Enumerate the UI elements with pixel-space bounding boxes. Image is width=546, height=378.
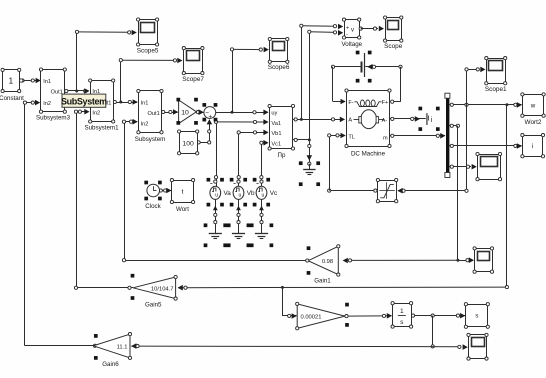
svg-text:Out1: Out1 <box>148 111 160 117</box>
svg-text:i: i <box>532 143 533 150</box>
wire: integrator output to s display <box>411 315 465 317</box>
wire: DC Machine m output to Demux <box>390 135 446 137</box>
wire: down to ground under Pr <box>309 140 311 164</box>
svg-text:+: + <box>346 25 349 31</box>
gain block 10 (selected) <box>179 100 197 124</box>
wire: Constant 100 up into Sum plus input <box>197 142 209 144</box>
svg-text:In1: In1 <box>141 100 149 106</box>
saturation block <box>378 181 397 202</box>
svg-text:A: A <box>348 118 352 124</box>
gain block Gain1 0.98 (points left) <box>308 246 338 274</box>
ground under Va (selected) <box>209 233 222 235</box>
svg-text:In2: In2 <box>141 121 149 127</box>
svg-text:Пр: Пр <box>278 152 286 159</box>
svg-text:In2: In2 <box>43 101 51 107</box>
wire: Gain5 feedback to Subsystem1 In2 <box>76 112 78 288</box>
wire: battery right down to F+ <box>400 67 402 102</box>
svg-text:w: w <box>530 102 536 109</box>
DC Machine block <box>347 91 390 147</box>
svg-text:100: 100 <box>182 140 194 147</box>
subsystem block Subsystem <box>139 91 162 133</box>
display block i-display <box>523 136 543 157</box>
svg-text:t: t <box>182 188 184 195</box>
svg-text:Scope7: Scope7 <box>182 76 204 83</box>
wire: demux out2 (current) down to Gain1 0.98 node <box>449 125 458 127</box>
voltage measurement block Voltage <box>345 20 360 38</box>
controlled voltage source Va (selected) <box>210 186 221 199</box>
svg-text:Clock: Clock <box>145 203 161 210</box>
svg-text:In2: In2 <box>92 110 100 116</box>
svg-text:Voltage: Voltage <box>341 41 362 48</box>
svg-text:Wort: Wort <box>176 206 189 213</box>
svg-text:10/104.7: 10/104.7 <box>151 286 174 292</box>
svg-text:11.1: 11.1 <box>117 344 128 350</box>
gain block Gain5 10/104.7 (points left) <box>133 277 176 299</box>
wire: Vb source up to Pr Vb1 input <box>238 132 240 186</box>
wire: Subsystem Out1 to Gain 10 <box>162 112 178 114</box>
wire: battery left down to F- <box>332 67 334 102</box>
svg-text:m: m <box>383 135 388 141</box>
sum block (selected) <box>204 107 216 119</box>
svg-text:Gain5: Gain5 <box>145 302 162 309</box>
svg-text:v: v <box>351 28 354 34</box>
display block Wort2 <box>523 95 544 116</box>
controlled voltage source Vc (selected) <box>256 186 267 199</box>
wire: demux out3 to i display <box>449 145 521 147</box>
clock block (selected) <box>147 184 160 197</box>
scope block Scope5 <box>139 20 158 45</box>
controlled voltage source Vb (selected) <box>233 186 244 199</box>
svg-text:1: 1 <box>9 76 14 86</box>
scope block Scope6 <box>270 39 288 62</box>
wire: branch up to Scope7 <box>120 60 122 102</box>
wire: Vc source up to Pr Vc1 input <box>261 143 263 187</box>
ground under Vb (selected) <box>232 233 245 235</box>
wire: DC Machine A- to current measurement <box>390 118 426 120</box>
scope block Scope <box>386 18 402 41</box>
constant block Constant value 1 <box>3 70 20 92</box>
svg-text:Gain6: Gain6 <box>102 361 119 368</box>
svg-text:SubSystem: SubSystem <box>61 97 107 107</box>
svg-text:TL: TL <box>348 134 355 140</box>
svg-text:Subsystem1: Subsystem1 <box>84 124 119 131</box>
svg-text:Out1: Out1 <box>51 90 63 96</box>
tooltip SubSystem (yellow hover box) <box>62 94 106 107</box>
svg-text:Subsystem: Subsystem <box>135 136 166 143</box>
display block Wort (t) <box>172 181 194 203</box>
display block s-display <box>466 305 488 327</box>
DC voltage source (battery) for field <box>364 53 366 77</box>
wire source Va down to ground <box>215 199 217 233</box>
scope block Scope2 <box>475 249 493 272</box>
armature circle with brushes <box>361 110 377 129</box>
gain block Gain6 11.1 (points left) <box>93 334 130 358</box>
wire: Clock to Wort <box>160 190 172 192</box>
svg-text:Scope6: Scope6 <box>268 64 290 71</box>
svg-text:Gain1: Gain1 <box>314 277 331 284</box>
constant block 100 <box>180 132 198 154</box>
ground symbol below Pr output <box>309 164 311 170</box>
svg-text:u: u <box>215 193 218 199</box>
svg-text:A-: A- <box>382 118 388 124</box>
wire: demux out4 to Scope4 <box>449 166 471 168</box>
wire: Pr out2 <box>293 139 309 141</box>
svg-text:u: u <box>262 193 265 199</box>
svg-text:u: u <box>239 193 242 199</box>
wire: Gain6 feedback up left column to Subsystem3 In2 <box>24 103 26 346</box>
wire source Vc down to ground <box>261 199 263 233</box>
svg-text:In1: In1 <box>43 79 51 85</box>
wire: bottom feedback to Gain6 and Scope3 <box>131 345 459 348</box>
wire: branch up to Scope5 <box>76 32 78 91</box>
svg-text:0.98: 0.98 <box>322 259 333 265</box>
svg-text:F+: F+ <box>382 100 389 106</box>
svg-text:Wort2: Wort2 <box>525 119 542 126</box>
svg-text:Va: Va <box>224 190 232 197</box>
field winding inductor <box>355 102 382 107</box>
scope block Scope1 <box>487 59 506 84</box>
Demux (black bar) <box>446 97 449 175</box>
wire: Voltage output to Scope <box>361 28 378 30</box>
wire: branch up to Scope1 <box>466 69 468 104</box>
wire: w node down right side to speed feedback <box>506 105 508 287</box>
wire: branch down to Saturation input <box>466 105 468 191</box>
wire: Va source up to Pr Va1 input <box>216 122 218 186</box>
svg-text:Vb: Vb <box>247 190 255 197</box>
wire: 0.00021 gain to integrator 1/s <box>345 315 392 317</box>
wire: Gain6 output to left column <box>25 345 94 347</box>
wire: saturation out left and up to TL <box>329 190 378 192</box>
svg-text:Scope5: Scope5 <box>137 48 159 55</box>
scope block Scope3 <box>469 335 487 359</box>
scope block Scope4 <box>478 155 501 180</box>
svg-text:+: + <box>208 114 212 121</box>
subsystem block Subsystem3 <box>41 70 65 112</box>
wire: Pr out2 node to Voltage - input <box>309 32 311 140</box>
selection handles of ground <box>299 161 303 165</box>
svg-text:Vc: Vc <box>270 190 278 197</box>
wire: node up to Voltage + input <box>301 26 303 120</box>
svg-text:Subsystem3: Subsystem3 <box>36 114 71 121</box>
svg-text:Constant: Constant <box>0 95 24 102</box>
wire: Subsystem1 Out1 to Subsystem In1 <box>113 102 137 104</box>
svg-text:uy: uy <box>271 111 277 117</box>
wire: branch down to bottom feedback wire <box>432 316 434 347</box>
svg-text:0.00021: 0.00021 <box>301 314 322 320</box>
wire: Subsystem3 Out1 to Subsystem1 In1 <box>65 90 89 92</box>
wire source Vb down to ground <box>238 199 240 233</box>
svg-text:s: s <box>475 314 478 320</box>
svg-text:Vc1: Vc1 <box>271 141 281 147</box>
wire: Gain10 output to Sum <box>196 112 203 114</box>
wire: battery field supply circuit <box>333 66 361 68</box>
subsystem block Pr (converter) <box>270 107 293 149</box>
svg-text:-: - <box>346 32 348 38</box>
svg-text:DC Machine: DC Machine <box>351 150 386 157</box>
wire: branch down into 0.00021 gain <box>281 286 284 289</box>
wire: Pr out1 to DC Machine A+ <box>293 119 345 121</box>
svg-text:10: 10 <box>181 110 189 117</box>
wire: Sum output to Pr uy input <box>216 112 267 114</box>
svg-text:Scope1: Scope1 <box>485 86 507 93</box>
svg-text:Va1: Va1 <box>271 121 281 127</box>
current measurement block i (selected) <box>426 113 428 125</box>
gain block 0.00021 (points right, selected) <box>297 304 345 328</box>
svg-text:Scope: Scope <box>384 43 403 50</box>
scope block Scope7 <box>184 49 203 74</box>
svg-text:F-: F- <box>348 100 353 106</box>
wire: branch up to Scope6 <box>232 49 234 112</box>
wire: Constant to Subsystem3 In1 <box>21 80 40 82</box>
wire: node right into Scope2 <box>458 260 470 262</box>
svg-text:Vb1: Vb1 <box>271 131 281 137</box>
wire: demux out1 (w) to Wort2 display <box>449 104 521 106</box>
wire: Gain1 feedback to Subsystem In2 <box>124 122 126 261</box>
ground under Vc (selected) <box>255 233 268 235</box>
subsystem block Subsystem1 <box>91 81 114 122</box>
integrator block 1/s <box>393 304 412 327</box>
svg-text:1: 1 <box>400 308 404 315</box>
